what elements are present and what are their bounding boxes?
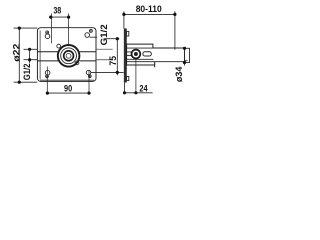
side circle center — [134, 52, 138, 56]
port bottom-right big — [86, 70, 91, 75]
dim 80-110 ext right — [174, 11, 176, 50]
port bottom-left big — [45, 70, 50, 75]
svg-text:ø34: ø34 — [174, 67, 184, 83]
plate tab top — [127, 31, 129, 36]
dim 75 dot top — [116, 37, 119, 40]
dim 75 line — [116, 39, 118, 76]
plate tab bottom — [127, 77, 129, 81]
screw bottom-left small — [46, 75, 49, 78]
svg-text:90: 90 — [64, 84, 72, 94]
dim 38 line — [51, 16, 69, 18]
wall plate inner bottom edge — [40, 79, 94, 81]
port top-right big — [85, 33, 90, 38]
ext stub right lower — [97, 59, 113, 61]
dim 80-110 line — [124, 13, 175, 15]
dim G1/2 ext upper — [24, 48, 38, 50]
dim G1/2 left line — [29, 49, 31, 63]
dim 75 ext bottom — [91, 71, 124, 73]
dim 80-110 dot left — [122, 13, 125, 16]
dim 24 line — [125, 92, 153, 94]
dim ø34 dot top — [183, 47, 186, 50]
dim 24 ext left — [124, 82, 126, 93]
dim ø34 dot bottom — [183, 61, 186, 64]
knob inner line — [185, 60, 188, 62]
inner housing edge line — [51, 13, 53, 43]
side circle outer — [132, 50, 141, 59]
knob cap — [185, 48, 190, 62]
port top-left big — [45, 34, 50, 39]
svg-text:75: 75 — [108, 56, 118, 66]
dim ø22 line — [18, 28, 20, 82]
dim G1/2 ext lower — [24, 59, 38, 61]
wall plate outer outline — [37, 28, 96, 82]
dim 24 dot left — [123, 91, 126, 94]
ext stub right upper — [97, 48, 113, 50]
waterway slot lower line — [37, 60, 96, 62]
svg-text:G1/2: G1/2 — [99, 24, 109, 45]
svg-text:G1/2: G1/2 — [22, 64, 32, 81]
screw top-right small — [89, 29, 92, 32]
label slot — [143, 52, 151, 56]
valve circle inner ring — [64, 51, 74, 61]
flange pin circle upper-left — [57, 44, 61, 48]
body inner line 2 — [127, 58, 154, 60]
dim ø34 line — [184, 48, 186, 65]
screw column line right — [88, 70, 90, 93]
dim ø22 ext top — [14, 27, 38, 29]
dim 38 dot left — [49, 16, 52, 19]
dim ø22 dot top — [18, 27, 21, 30]
body inner line 1 — [127, 47, 185, 49]
pipe bottom line — [127, 61, 185, 63]
svg-text:24: 24 — [139, 84, 147, 94]
screw top-left small — [46, 31, 49, 34]
plate profile bar — [124, 29, 126, 82]
body thread stripe 1 — [127, 51, 132, 53]
dim 90 line — [47, 92, 89, 94]
svg-text:ø22: ø22 — [11, 44, 21, 62]
screw bottom-right small — [88, 75, 91, 78]
dim G1/2 dot upper — [28, 48, 31, 51]
dim 38 dot right — [67, 16, 70, 19]
pipe top line — [153, 47, 185, 49]
dim 24 dot right — [134, 91, 137, 94]
body block — [127, 44, 155, 67]
svg-text:80-110: 80-110 — [136, 4, 162, 14]
dim ø22 ext bottom — [14, 81, 38, 83]
valve circle mid — [61, 48, 77, 64]
valve spindle circle — [66, 53, 71, 58]
valve vertical centerline — [68, 13, 70, 45]
dim 75 dot bottom — [116, 71, 119, 74]
valve body circle outer — [58, 45, 80, 67]
svg-text:38: 38 — [53, 6, 61, 16]
dim 80-110 dot right — [173, 13, 176, 16]
G1/2 leader from top port — [90, 36, 97, 38]
waterway slot upper line — [37, 51, 96, 53]
body thread stripe 2 — [127, 54, 132, 56]
dim 90 dot left — [46, 92, 49, 95]
dim G1/2 dot lower — [28, 58, 31, 61]
screw column line left — [46, 67, 48, 94]
dim 90 dot right — [87, 92, 90, 95]
dim 75 ext top — [105, 38, 120, 40]
dim ø22 dot bottom — [18, 81, 21, 84]
flange pin circle lower-right — [75, 61, 79, 65]
wall plate inner left edge — [39, 31, 41, 80]
dim 80-110 ext left — [123, 11, 125, 29]
side centerline — [135, 58, 137, 93]
